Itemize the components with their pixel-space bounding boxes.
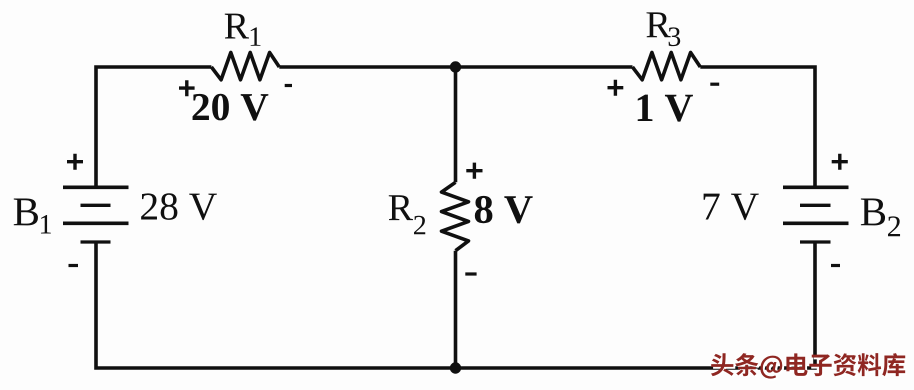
battery B1 [63, 187, 129, 242]
label B1 [14, 198, 51, 233]
wire: B1 positive terminal up to top-left corner and right to R1 [96, 67, 211, 187]
value 8 V across R2 [475, 196, 533, 224]
resistor R3 [633, 53, 701, 80]
polarity plus of R2 [466, 163, 482, 179]
watermark text 头条@电子资料库 [711, 353, 905, 379]
label R1 [225, 14, 261, 46]
label B2 [861, 198, 900, 236]
wire: node A down to R2 top [454, 67, 458, 182]
node B junction dot [450, 362, 461, 373]
wire: R1 right end to node A and on to R3 left end [279, 65, 632, 69]
polarity minus of R1 [285, 84, 292, 87]
label R3 [646, 12, 680, 46]
polarity plus of R3 [608, 80, 624, 96]
value 28 V of B1 [141, 193, 217, 220]
value 7 V of B2 [704, 194, 759, 220]
value 1 V across R3 [638, 95, 693, 122]
wire: R2 bottom down to node B [454, 251, 458, 368]
polarity minus of R2 [465, 272, 476, 275]
polarity plus of B1 [67, 154, 83, 170]
resistor R1 [211, 53, 279, 80]
wire: B1 negative terminal down to bottom-left corner and right to node B [96, 242, 456, 368]
wire: R3 right end to top-right corner down to B2 positive terminal [700, 67, 815, 187]
wire: node B right to bottom-right corner and up to B2 negative terminal [456, 242, 816, 368]
polarity minus of B2 [831, 264, 840, 267]
watermark white emboss shadow [713, 355, 907, 381]
label R2 [389, 195, 425, 234]
polarity plus of R1 [179, 80, 195, 96]
resistor R2 [442, 182, 469, 250]
polarity plus of B2 [832, 154, 848, 170]
polarity minus of B1 [69, 264, 79, 267]
node A junction dot [450, 61, 461, 72]
value 20 V across R1 [193, 94, 269, 121]
battery B2 [783, 187, 849, 242]
polarity minus of R3 [710, 83, 719, 86]
